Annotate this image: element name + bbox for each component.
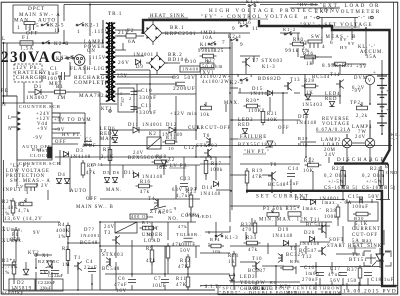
svg-text:1%: 1% xyxy=(58,235,66,240)
svg-text:Z2: Z2 xyxy=(168,158,175,163)
svg-text:MAIN SW.. B: MAIN SW.. B xyxy=(76,205,114,210)
svg-text:F2: F2 xyxy=(127,28,134,34)
svg-text:BD682D: BD682D xyxy=(258,77,282,82)
svg-text:R23: R23 xyxy=(332,167,343,172)
svg-text:TGL60B..: TGL60B.. xyxy=(176,232,202,237)
svg-text:AUTO: AUTO xyxy=(70,189,87,194)
svg-text:R38: R38 xyxy=(326,209,337,214)
svg-text:1N4148: 1N4148 xyxy=(272,234,293,239)
svg-text:"-" Ø: "-" Ø xyxy=(358,15,372,20)
svg-text:110K: 110K xyxy=(248,109,262,114)
svg-text:"DPDT" - DOUBLE POLE DOUBLE TH: "DPDT" - DOUBLE POLE DOUBLE THROW xyxy=(220,290,343,295)
svg-text:2200UF: 2200UF xyxy=(173,86,196,92)
svg-text:K1-5: K1-5 xyxy=(246,0,260,5)
svg-text:1N4148: 1N4148 xyxy=(296,121,317,126)
svg-text:D9: D9 xyxy=(136,65,144,70)
svg-text:INPUT 1: INPUT 1 xyxy=(3,188,27,193)
svg-text:BZX55C: BZX55C xyxy=(38,259,60,264)
svg-text:47uF: 47uF xyxy=(286,182,300,187)
svg-text:CHARGER: CHARGER xyxy=(16,75,47,81)
svg-text:R16: R16 xyxy=(140,180,151,185)
svg-text:1N5403: 1N5403 xyxy=(302,103,323,108)
svg-text:2,2k: 2,2k xyxy=(356,114,368,119)
svg-text:9: 9 xyxy=(232,26,236,32)
svg-text:6: 6 xyxy=(208,230,211,235)
svg-text:T2: T2 xyxy=(100,248,107,253)
svg-text:DISCHARGE: DISCHARGE xyxy=(337,157,386,163)
svg-text:C10: C10 xyxy=(141,88,153,94)
svg-text:1: 1 xyxy=(66,41,70,47)
svg-text:C2 220uF: C2 220uF xyxy=(38,280,56,285)
svg-text:C11: C11 xyxy=(141,103,152,109)
svg-text:R18: R18 xyxy=(156,155,167,160)
svg-text:11: 11 xyxy=(54,28,61,34)
svg-text:BC548: BC548 xyxy=(102,267,120,272)
svg-text:6A: 6A xyxy=(128,39,136,45)
svg-text:10K: 10K xyxy=(267,118,278,123)
svg-text:50V: 50V xyxy=(368,194,380,200)
svg-text:schotky: schotky xyxy=(2,291,24,296)
svg-text:330nF: 330nF xyxy=(139,110,157,116)
svg-text:47K: 47K xyxy=(178,265,189,270)
svg-text:5: 5 xyxy=(36,182,39,187)
svg-text:D20: D20 xyxy=(304,231,315,236)
svg-text:47k: 47k xyxy=(86,171,96,176)
svg-text:BC548: BC548 xyxy=(80,241,98,246)
svg-text:47K: 47K xyxy=(176,283,187,288)
svg-text:+/-5%: +/-5% xyxy=(328,180,345,185)
svg-text:ON: ON xyxy=(87,49,96,54)
svg-text:T3: T3 xyxy=(104,231,111,236)
svg-text:B10: B10 xyxy=(298,142,308,147)
svg-text:1M: 1M xyxy=(62,263,71,268)
svg-text:SOFT: SOFT xyxy=(329,238,344,243)
svg-text:3,48K: 3,48K xyxy=(2,206,19,211)
svg-text:1: 1 xyxy=(77,29,81,35)
svg-text:C4: C4 xyxy=(86,260,93,265)
svg-text:T10: T10 xyxy=(252,257,263,262)
svg-text:MAA7824: MAA7824 xyxy=(79,93,108,99)
svg-text:1N4148: 1N4148 xyxy=(70,155,91,160)
svg-text:R19: R19 xyxy=(252,169,263,174)
svg-text:U1: U1 xyxy=(108,91,116,96)
svg-text:35A: 35A xyxy=(366,55,377,60)
svg-text:D19: D19 xyxy=(278,228,289,233)
svg-text:NO.: NO. xyxy=(168,217,179,222)
svg-text:SW. MEAS - B: SW. MEAS - B xyxy=(311,35,357,40)
svg-text:D16: D16 xyxy=(298,115,309,120)
svg-text:K2-1: K2-1 xyxy=(85,23,99,29)
svg-text:470: 470 xyxy=(242,228,252,233)
svg-text:D14: D14 xyxy=(202,186,213,191)
svg-text:10UF: 10UF xyxy=(152,284,167,289)
svg-text:COUNTER.SCH: COUNTER.SCH xyxy=(19,104,61,109)
svg-text:1K: 1K xyxy=(228,260,236,265)
svg-text:R24: R24 xyxy=(370,167,381,172)
svg-text:TR.1: TR.1 xyxy=(108,11,122,17)
svg-text:N: N xyxy=(8,127,13,132)
svg-text:R11: R11 xyxy=(176,277,187,282)
svg-text:9: 9 xyxy=(174,206,177,211)
svg-text:LOAD: LOAD xyxy=(144,239,161,244)
svg-text:CS-16MB 5(: CS-16MB 5( xyxy=(362,186,396,191)
svg-text:TP2: TP2 xyxy=(350,101,361,106)
svg-text:47R: 47R xyxy=(252,175,263,180)
svg-text:K1-6: K1-6 xyxy=(238,21,252,26)
svg-text:D2: D2 xyxy=(17,281,25,286)
svg-text:8V: 8V xyxy=(340,37,347,42)
svg-text:K1-4: K1-4 xyxy=(200,43,214,48)
svg-text:24V: 24V xyxy=(325,153,336,158)
svg-text:NC: NC xyxy=(158,210,166,215)
svg-text:+9V: +9V xyxy=(37,127,48,132)
svg-text:C14: C14 xyxy=(288,167,299,172)
svg-text:1N41: 1N41 xyxy=(90,162,104,167)
svg-text:7: 7 xyxy=(222,40,226,46)
svg-text:C13: C13 xyxy=(180,177,191,182)
svg-text:5: 5 xyxy=(36,23,40,29)
svg-text:T4: T4 xyxy=(148,197,155,202)
svg-text:LED2: LED2 xyxy=(240,275,255,280)
svg-text:230VAC: 230VAC xyxy=(1,49,63,66)
svg-text:47k: 47k xyxy=(248,248,258,253)
svg-text:R1\: R1\ xyxy=(142,220,151,225)
svg-text:100UF: 100UF xyxy=(178,243,196,248)
svg-text:330nF: 330nF xyxy=(139,95,157,101)
svg-text:0,2 Ohm: 0,2 Ohm xyxy=(324,174,347,179)
svg-text:47k: 47k xyxy=(140,190,150,195)
svg-text:400K: 400K xyxy=(56,229,70,234)
svg-text:OFF: OFF xyxy=(278,126,290,131)
svg-text:1M: 1M xyxy=(57,95,66,101)
svg-text:C18 1uF: C18 1uF xyxy=(371,278,394,283)
svg-text:KRPC2501: KRPC2501 xyxy=(165,31,197,37)
svg-text:R14: R14 xyxy=(210,237,220,242)
svg-text:C12: C12 xyxy=(184,146,195,151)
svg-text:D5 D6: D5 D6 xyxy=(103,170,120,175)
svg-text:C15: C15 xyxy=(348,194,360,200)
svg-text:100uF: 100uF xyxy=(352,205,369,210)
svg-text:RED: RED xyxy=(238,123,250,128)
svg-text:1N4148: 1N4148 xyxy=(200,192,221,197)
svg-text:R4: R4 xyxy=(58,223,65,228)
svg-text:R28: R28 xyxy=(304,79,315,84)
svg-text:100k: 100k xyxy=(324,215,337,220)
svg-text:998k R25: 998k R25 xyxy=(198,49,224,54)
svg-text:10k: 10k xyxy=(200,113,210,118)
svg-text:K2-2: K2-2 xyxy=(60,56,74,61)
svg-text:GND: GND xyxy=(386,170,398,175)
svg-text:10K: 10K xyxy=(156,166,167,171)
svg-text:14.06.2015 PVD: 14.06.2015 PVD xyxy=(343,289,397,295)
svg-text:MAN.: MAN. xyxy=(106,188,122,193)
svg-text:K1-3: K1-3 xyxy=(262,65,276,70)
svg-text:R36: R36 xyxy=(290,259,300,264)
svg-text:R7: R7 xyxy=(103,148,110,153)
svg-text:1N4001: 1N4001 xyxy=(80,233,100,238)
svg-text:BC337: BC337 xyxy=(248,269,266,274)
svg-text:4: 4 xyxy=(250,73,253,78)
svg-text:R9: R9 xyxy=(146,247,153,252)
svg-text:1K: 1K xyxy=(306,62,314,67)
svg-text:1N4001: 1N4001 xyxy=(133,53,154,58)
svg-text:R22: R22 xyxy=(304,159,315,164)
svg-text:+: + xyxy=(373,71,377,76)
svg-text:DPCT: DPCT xyxy=(28,6,45,12)
svg-text:1N4001: 1N4001 xyxy=(142,123,163,128)
svg-text:+12V min: +12V min xyxy=(170,112,198,117)
svg-text:R29: R29 xyxy=(298,136,308,141)
svg-text:4,7k: 4,7k xyxy=(18,209,30,214)
svg-text:UNDER: UNDER xyxy=(142,233,163,238)
svg-text:R12: R12 xyxy=(180,259,191,264)
svg-text:6: 6 xyxy=(330,40,334,46)
svg-text:STX603: STX603 xyxy=(102,253,124,258)
svg-text:STX603: STX603 xyxy=(196,144,218,149)
svg-text:-9V: -9V xyxy=(33,136,43,141)
svg-text:8: 8 xyxy=(237,73,240,78)
svg-text:HV: HV xyxy=(340,45,348,50)
svg-text:50V: 50V xyxy=(180,249,191,254)
svg-text:TEST: TEST xyxy=(144,227,159,232)
svg-text:L. CUT-OFF: L. CUT-OFF xyxy=(197,126,231,131)
svg-text:10: 10 xyxy=(168,146,174,151)
svg-text:CLOCK: CLOCK xyxy=(30,153,50,158)
svg-text:BT151: BT151 xyxy=(349,258,368,263)
svg-text:HV PT.: HV PT. xyxy=(62,133,82,138)
svg-text:11V: 11V xyxy=(101,82,112,87)
svg-text:START: START xyxy=(327,244,346,249)
svg-text:K2-3: K2-3 xyxy=(230,81,244,86)
svg-text:R15: R15 xyxy=(186,190,197,195)
svg-text:317: 317 xyxy=(120,97,125,103)
svg-text:100k: 100k xyxy=(210,168,223,173)
svg-text:"HV D4.": "HV D4." xyxy=(297,2,323,7)
svg-text:C17: C17 xyxy=(330,267,341,272)
svg-text:11: 11 xyxy=(252,26,259,32)
svg-text:Imax. - 6A: Imax. - 6A xyxy=(322,201,352,206)
svg-text:K2: K2 xyxy=(149,132,157,137)
svg-text:2: 2 xyxy=(129,96,132,101)
svg-text:RST: RST xyxy=(32,147,43,152)
svg-text:9V: 9V xyxy=(348,41,355,46)
svg-text:PE: PE xyxy=(1,88,9,94)
svg-text:D3: D3 xyxy=(76,149,84,154)
svg-text:T14: T14 xyxy=(330,73,341,78)
svg-text:R21: R21 xyxy=(267,112,278,117)
svg-text:R37: R37 xyxy=(347,268,358,273)
svg-text:0,2 Ohm: 0,2 Ohm xyxy=(362,174,385,179)
svg-text:2,4K: 2,4K xyxy=(101,155,114,160)
svg-text:+: + xyxy=(386,88,389,93)
svg-text:3: 3 xyxy=(26,190,29,195)
svg-text:F1: F1 xyxy=(22,35,29,41)
svg-text:C5: C5 xyxy=(85,138,92,143)
svg-text:47k: 47k xyxy=(178,224,188,229)
svg-text:OFF: OFF xyxy=(86,197,98,202)
svg-text:4: 4 xyxy=(322,44,326,50)
svg-text:2V: 2V xyxy=(41,184,49,189)
svg-text:1: 1 xyxy=(17,25,21,31)
svg-text:R34: R34 xyxy=(246,236,257,241)
svg-text:-9V: -9V xyxy=(352,89,362,94)
svg-text:13,6V (14,2V: 13,6V (14,2V xyxy=(4,217,43,222)
svg-text:D12: D12 xyxy=(166,123,177,128)
svg-text:"-": "-" xyxy=(391,137,399,142)
svg-text:LED1: LED1 xyxy=(198,214,213,219)
svg-text:9: 9 xyxy=(240,42,244,48)
svg-text:+: + xyxy=(386,107,389,112)
svg-text:V: V xyxy=(368,79,372,84)
svg-text:C3 22uF: C3 22uF xyxy=(48,273,63,278)
svg-text:T7 STX603: T7 STX603 xyxy=(252,59,283,64)
svg-text:- S.I.T.: - S.I.T. xyxy=(200,285,221,290)
svg-text:.115V: .115V xyxy=(90,56,106,61)
svg-text:BC547: BC547 xyxy=(299,249,317,254)
svg-text:1N4148: 1N4148 xyxy=(299,242,320,247)
svg-text:D10: D10 xyxy=(185,59,197,65)
svg-text:T12: T12 xyxy=(302,255,313,260)
svg-text:MAX.: MAX. xyxy=(224,101,240,106)
svg-text:T13: T13 xyxy=(290,78,301,83)
svg-text:4x100/2W: 4x100/2W xyxy=(202,80,230,85)
svg-text:10A: 10A xyxy=(202,36,213,41)
svg-text:R26: R26 xyxy=(303,52,314,57)
svg-text:D4: D4 xyxy=(58,173,66,178)
svg-text:R33: R33 xyxy=(228,254,239,259)
svg-text:C7: C7 xyxy=(154,277,161,282)
svg-text:10K: 10K xyxy=(303,169,314,174)
svg-text:24V: 24V xyxy=(355,135,366,140)
svg-text:C6: C6 xyxy=(118,277,125,282)
svg-text:VOLTAGE: VOLTAGE xyxy=(322,122,350,127)
svg-text:24V: 24V xyxy=(104,225,115,230)
svg-text:400 Ohm: 400 Ohm xyxy=(131,214,154,219)
svg-text:+/-5%: +/-5% xyxy=(366,180,383,185)
svg-text:R14: R14 xyxy=(166,135,176,140)
svg-text:C9: C9 xyxy=(172,75,180,81)
svg-text:Ø20: Ø20 xyxy=(10,238,21,243)
svg-text:1: 1 xyxy=(120,91,123,96)
svg-text:BC548: BC548 xyxy=(268,183,286,188)
svg-text:B30: B30 xyxy=(354,216,364,221)
svg-text:9V: 9V xyxy=(33,231,41,236)
svg-text:R20*: R20* xyxy=(246,99,260,104)
svg-text:CUT-OFF: CUT-OFF xyxy=(352,233,378,238)
svg-text:1N4007: 1N4007 xyxy=(26,95,48,101)
svg-text:K1-2: K1-2 xyxy=(283,27,296,32)
svg-text:150: 150 xyxy=(347,279,357,284)
svg-text:50V: 50V xyxy=(184,75,196,81)
svg-text:26V: 26V xyxy=(118,60,130,66)
svg-text:+9V: +9V xyxy=(356,65,367,70)
svg-text:CURRENT: CURRENT xyxy=(352,227,381,232)
svg-text:L: L xyxy=(2,36,6,42)
svg-text:CS-16MB 5(: CS-16MB 5( xyxy=(324,186,358,191)
svg-text:T1: T1 xyxy=(74,256,81,261)
svg-text:MAN.: MAN. xyxy=(14,18,31,24)
svg-text:47k: 47k xyxy=(146,259,156,264)
svg-text:K1-3: K1-3 xyxy=(225,236,239,241)
